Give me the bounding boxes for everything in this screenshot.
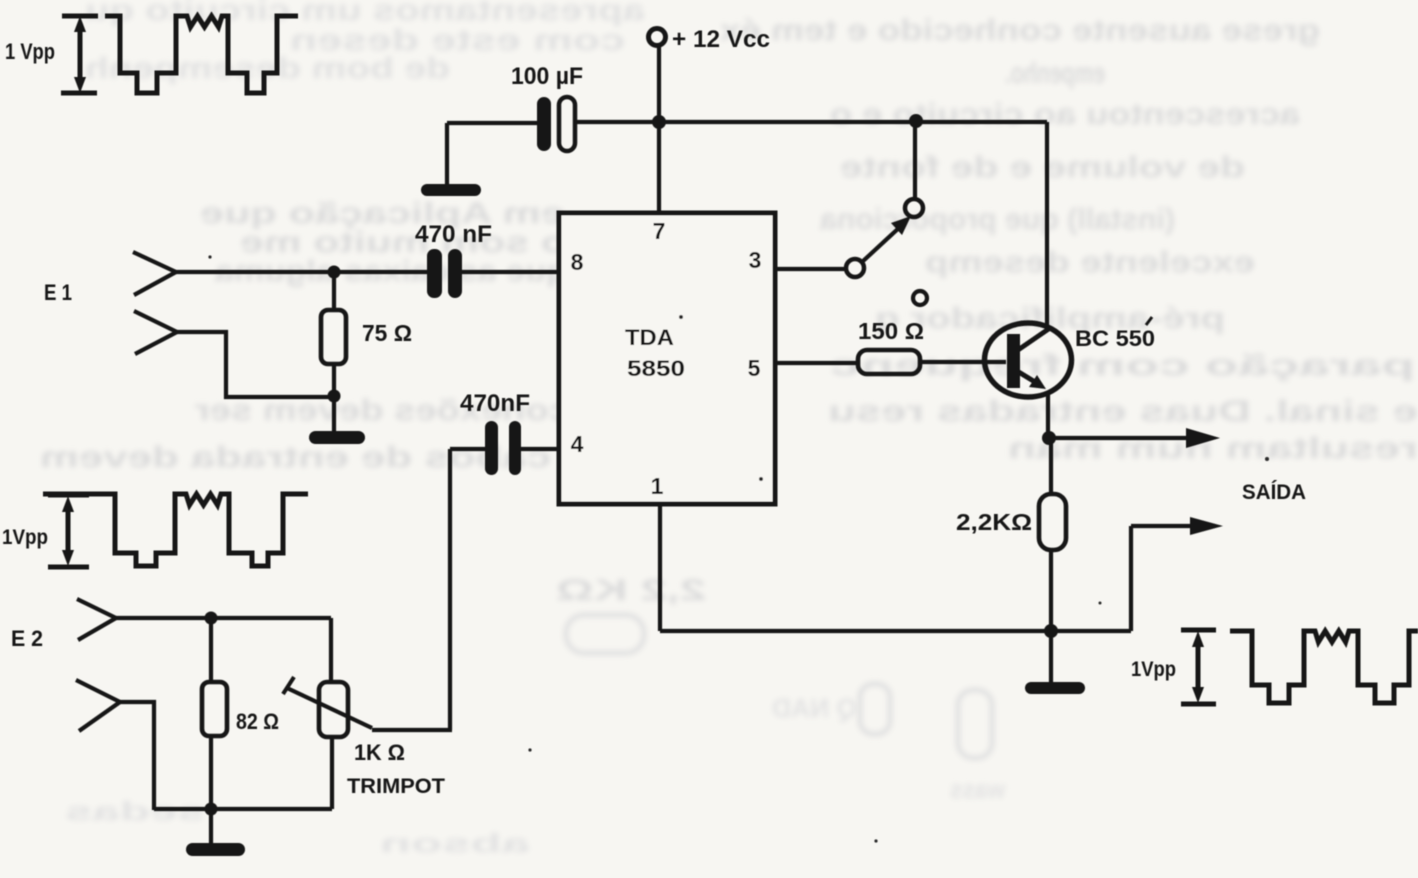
- svg-text:2,2 KΩ: 2,2 KΩ: [556, 574, 706, 607]
- svg-text:Q NAD: Q NAD: [772, 693, 857, 723]
- svg-text:grese ausente conhecido e tem: grese ausente conhecido e tem éx: [720, 14, 1320, 47]
- svg-text:7: 7: [653, 218, 666, 244]
- svg-text:E 2: E 2: [11, 626, 43, 651]
- svg-text:5: 5: [748, 355, 761, 381]
- svg-text:5850: 5850: [627, 356, 685, 381]
- svg-text:abson: abson: [380, 828, 530, 858]
- svg-text:1Vpp: 1Vpp: [2, 526, 48, 549]
- svg-text:acrescentou ao circuito e o: acrescentou ao circuito e o: [830, 98, 1300, 131]
- svg-text:82 Ω: 82 Ω: [236, 709, 279, 734]
- svg-text:8: 8: [571, 249, 584, 275]
- svg-text:470nF: 470nF: [460, 390, 530, 417]
- svg-text:empenho.: empenho.: [1005, 57, 1105, 90]
- svg-text:excelente desemp: excelente desemp: [925, 246, 1255, 279]
- svg-text:de volume e de fonte: de volume e de fonte: [840, 151, 1245, 184]
- svg-text:150 Ω: 150 Ω: [858, 318, 924, 344]
- svg-text:e sinal. Duas entradas resu: e sinal. Duas entradas resu: [828, 395, 1418, 428]
- svg-text:apresentamos um circuito qu: apresentamos um circuito qu: [85, 0, 645, 27]
- svg-text:2,2KΩ: 2,2KΩ: [956, 509, 1032, 535]
- svg-text:TDA: TDA: [625, 325, 674, 350]
- svg-text:+ 12 Vcc: + 12 Vcc: [672, 26, 770, 53]
- svg-text:1 Vpp: 1 Vpp: [5, 39, 55, 64]
- svg-text:BC 550: BC 550: [1075, 326, 1155, 351]
- svg-text:75 Ω: 75 Ω: [362, 320, 412, 346]
- svg-text:470 nF: 470 nF: [415, 221, 492, 248]
- svg-text:wass: wass: [950, 774, 1006, 804]
- svg-text:4: 4: [571, 431, 584, 457]
- svg-text:3: 3: [749, 247, 762, 273]
- svg-text:1K Ω: 1K Ω: [354, 740, 405, 765]
- svg-text:E 1: E 1: [44, 280, 72, 305]
- svg-text:1: 1: [651, 473, 664, 499]
- svg-text:1Vpp: 1Vpp: [1131, 658, 1176, 681]
- svg-text:(install) que proporciona: (install) que proporciona: [820, 203, 1175, 236]
- svg-text:SAÍDA: SAÍDA: [1242, 481, 1306, 504]
- svg-text:de bom desempenh: de bom desempenh: [85, 52, 450, 85]
- svg-text:100 µF: 100 µF: [511, 63, 583, 90]
- svg-text:TRIMPOT: TRIMPOT: [347, 775, 445, 798]
